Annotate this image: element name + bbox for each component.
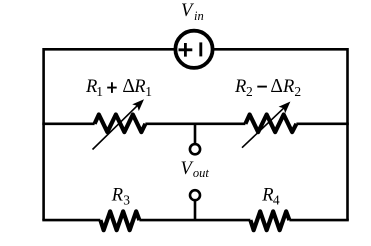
wire: middle bridge rail (left segment, between resistors, right segment) xyxy=(42,123,349,126)
svg-text:V: V xyxy=(181,1,195,21)
arrow through R2 (variable-resistor arrow) xyxy=(242,102,290,148)
label R2 - ΔR2 xyxy=(234,76,301,99)
resistor R2 (variable, zigzag on middle rail) xyxy=(245,115,296,133)
label V_in xyxy=(181,1,204,23)
label V_out xyxy=(181,159,210,180)
voltage source V_in (circle with + and | terminal marks) xyxy=(175,31,212,68)
wire: stub from Vout- terminal down to bottom rail xyxy=(194,199,197,220)
svg-text:R: R xyxy=(133,77,145,97)
wire: stub from middle rail down to Vout+ terminal xyxy=(194,124,197,145)
svg-text:in: in xyxy=(194,9,204,23)
svg-text:2: 2 xyxy=(246,84,253,99)
resistor R4 (zigzag on bottom rail) xyxy=(250,211,289,230)
svg-text:R: R xyxy=(234,77,246,97)
label R1 + ΔR1 xyxy=(85,76,152,99)
resistor R3 (zigzag on bottom rail) xyxy=(100,211,139,230)
svg-text:out: out xyxy=(193,166,210,180)
svg-text:1: 1 xyxy=(145,84,152,99)
resistor R1 (variable, zigzag on middle rail) xyxy=(95,115,146,133)
svg-text:3: 3 xyxy=(123,193,130,208)
svg-text:2: 2 xyxy=(294,84,301,99)
svg-text:R: R xyxy=(282,77,294,97)
svg-text:Δ: Δ xyxy=(270,76,283,97)
svg-text:4: 4 xyxy=(273,193,280,208)
wire: bottom rail segments xyxy=(42,219,349,222)
node Vout- terminal (open circle) xyxy=(190,190,200,200)
label R4 xyxy=(261,186,280,208)
svg-text:1: 1 xyxy=(96,84,103,99)
arrow through R1 (variable-resistor arrow) xyxy=(93,99,145,149)
svg-text:Δ: Δ xyxy=(122,76,135,97)
node Vout+ terminal (open circle) xyxy=(190,144,200,154)
label R3 xyxy=(111,186,131,208)
wire: outer rectangular loop (left, top, right sides and corners) xyxy=(44,49,348,220)
svg-text:R: R xyxy=(111,186,123,206)
svg-text:R: R xyxy=(261,186,273,206)
